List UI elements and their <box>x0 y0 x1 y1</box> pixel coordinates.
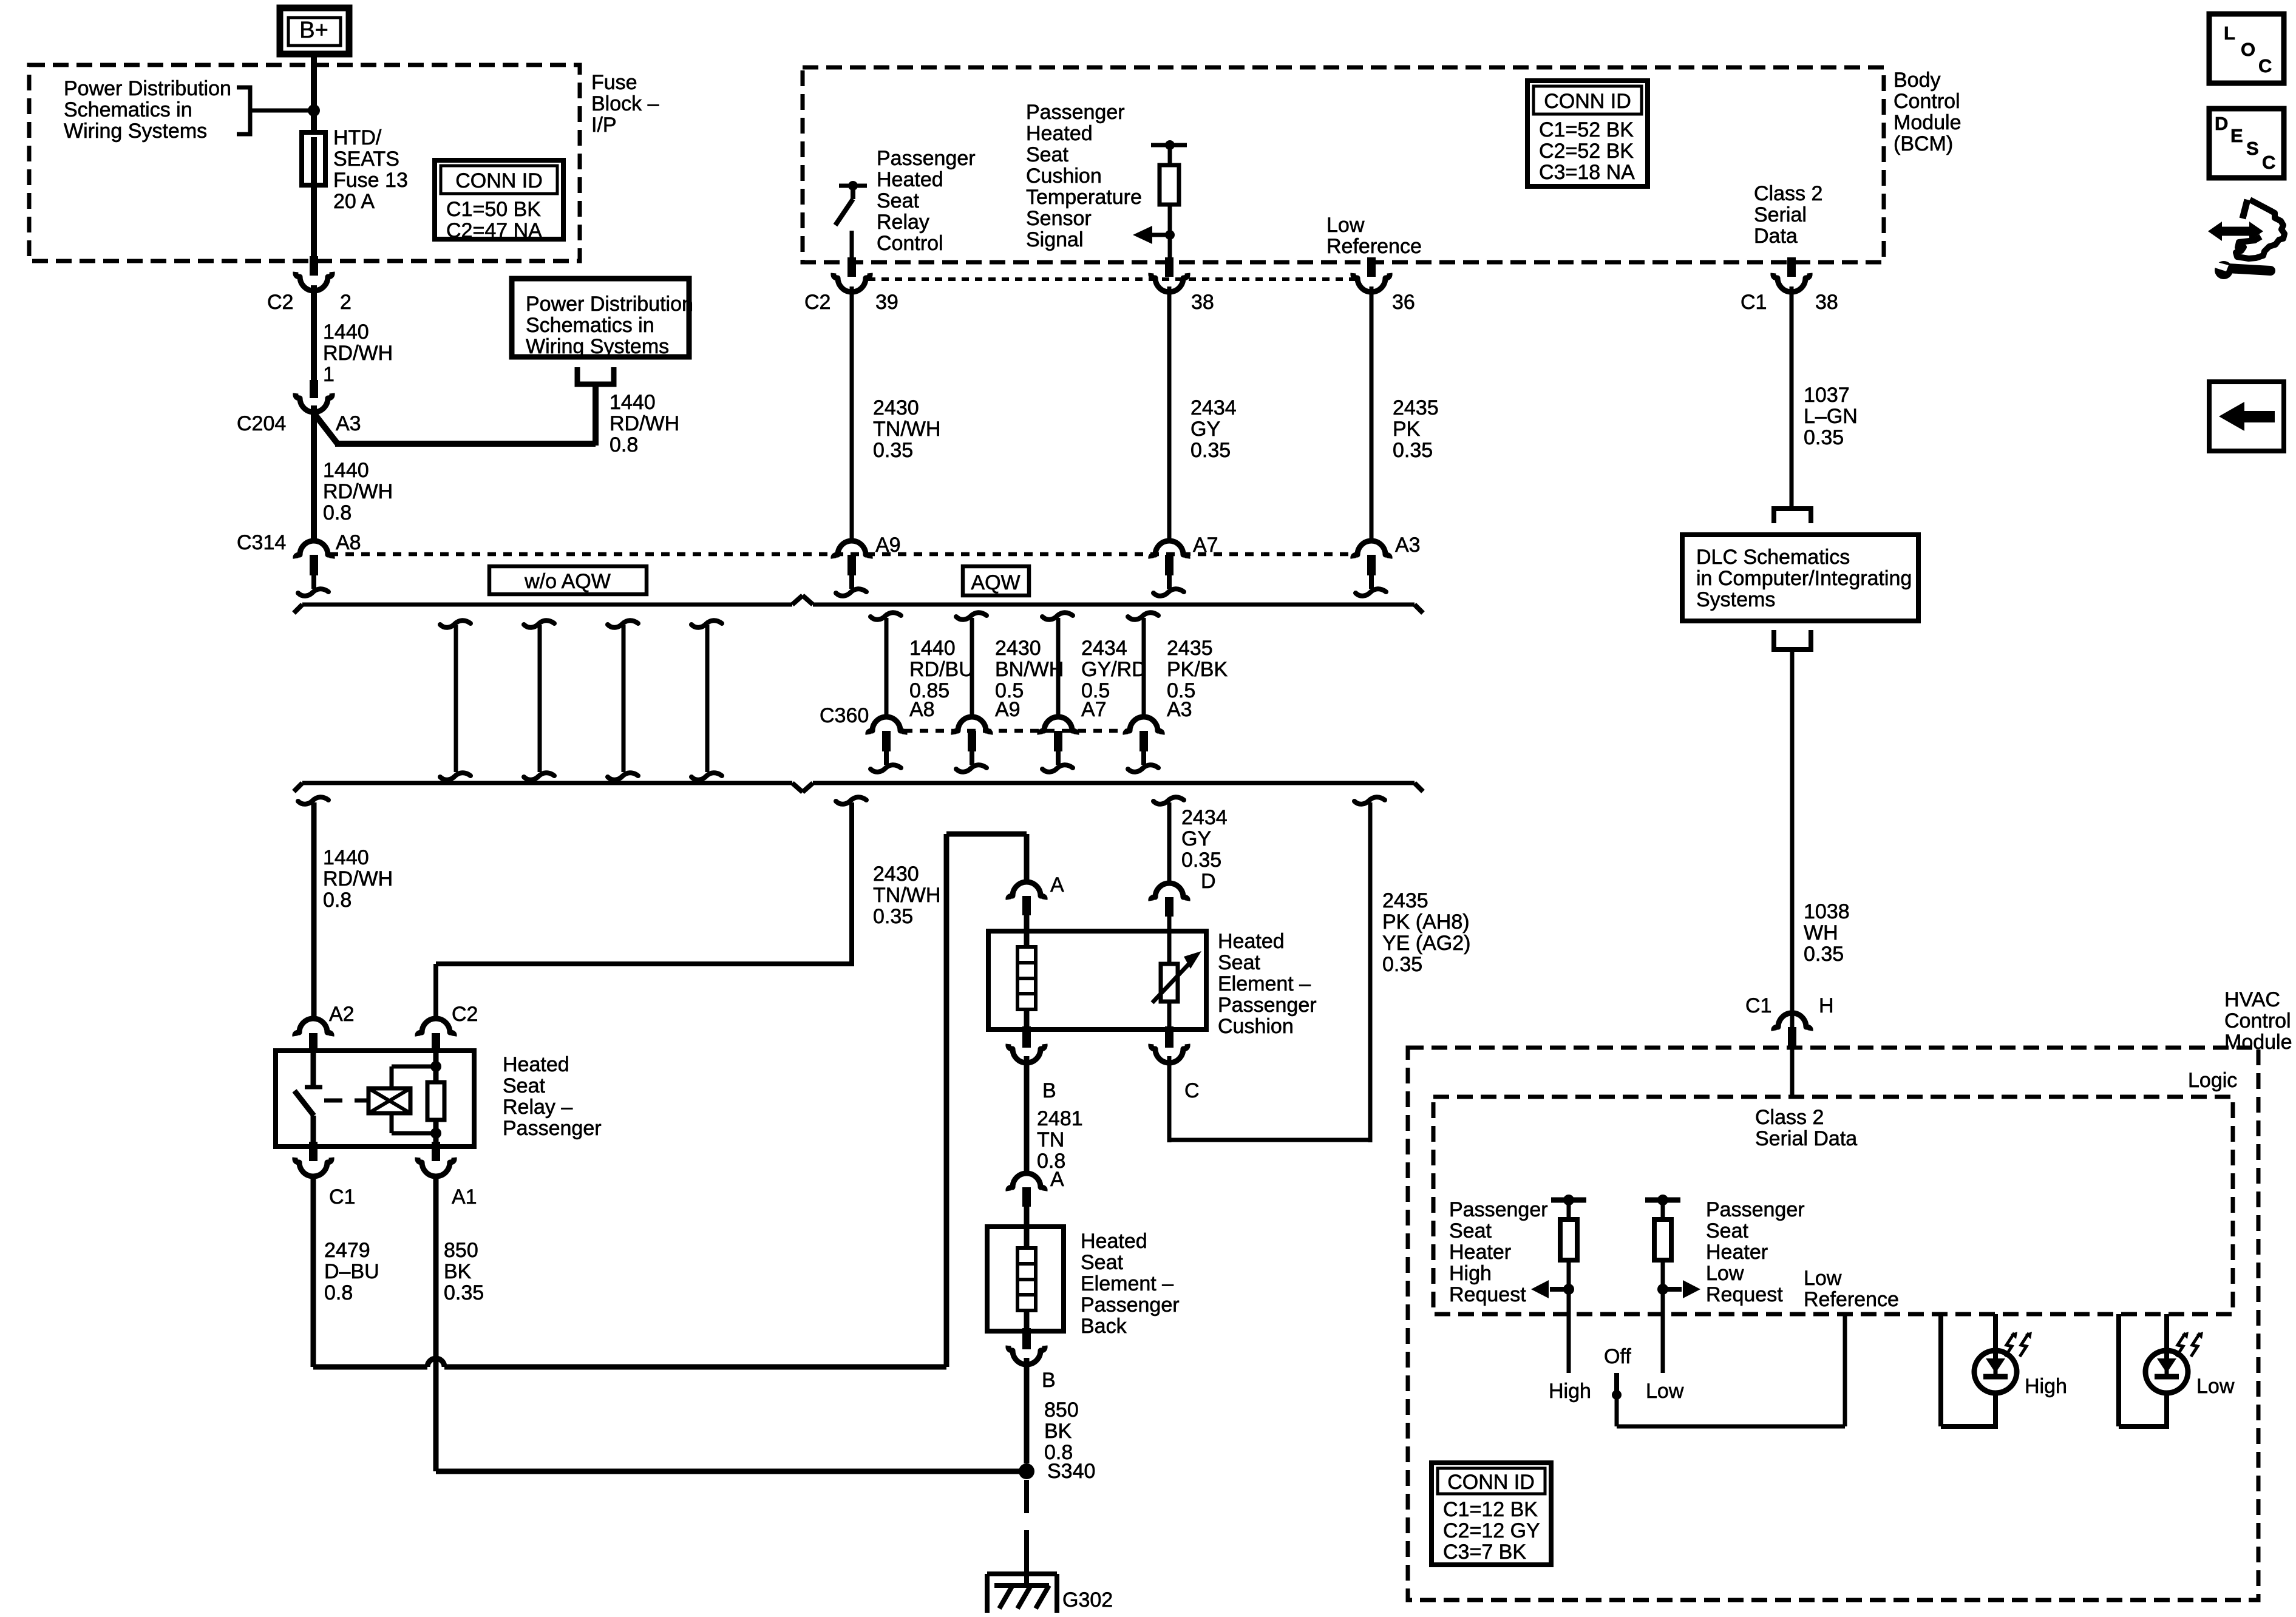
svg-text:Seat: Seat <box>877 189 919 212</box>
svg-text:w/o AQW: w/o AQW <box>524 570 611 593</box>
svg-text:Low: Low <box>1804 1267 1842 1290</box>
svg-text:Passenger: Passenger <box>1706 1198 1805 1221</box>
svg-text:C1=12 BK: C1=12 BK <box>1443 1498 1538 1521</box>
svg-text:1: 1 <box>323 363 335 386</box>
svg-text:Reference: Reference <box>1804 1288 1899 1311</box>
svg-text:0.35: 0.35 <box>1190 439 1231 462</box>
svg-text:2481: 2481 <box>1037 1107 1083 1130</box>
svg-text:Element –: Element – <box>1081 1272 1173 1295</box>
svg-text:High: High <box>1449 1262 1492 1285</box>
svg-text:38: 38 <box>1815 291 1838 314</box>
svg-text:I/P: I/P <box>591 114 617 137</box>
svg-text:2434: 2434 <box>1081 637 1127 660</box>
svg-text:Heater: Heater <box>1449 1241 1511 1264</box>
svg-text:Relay –: Relay – <box>503 1096 572 1119</box>
svg-text:A3: A3 <box>1395 534 1421 557</box>
svg-text:CONN ID: CONN ID <box>455 169 543 192</box>
svg-text:BN/WH: BN/WH <box>995 658 1064 681</box>
svg-text:0.35: 0.35 <box>1804 426 1844 449</box>
svg-text:Control: Control <box>2224 1009 2291 1032</box>
svg-text:Wiring Systems: Wiring Systems <box>526 335 669 358</box>
svg-text:2430: 2430 <box>873 863 919 886</box>
svg-text:1440: 1440 <box>323 846 369 869</box>
svg-text:Module: Module <box>2224 1031 2292 1054</box>
svg-text:Low: Low <box>2196 1375 2235 1398</box>
svg-text:Low: Low <box>1326 214 1365 237</box>
svg-text:C2: C2 <box>267 291 293 314</box>
svg-text:RD/WH: RD/WH <box>323 867 393 890</box>
svg-text:Off: Off <box>1604 1345 1631 1368</box>
svg-text:Seat: Seat <box>1026 143 1068 166</box>
svg-text:YE (AG2): YE (AG2) <box>1382 932 1470 955</box>
svg-text:0.8: 0.8 <box>324 1281 353 1304</box>
svg-text:Seat: Seat <box>1706 1219 1748 1242</box>
svg-text:B: B <box>1042 1079 1056 1102</box>
svg-text:BK: BK <box>1044 1420 1072 1443</box>
svg-text:GY: GY <box>1181 827 1211 850</box>
svg-text:0.8: 0.8 <box>610 433 638 456</box>
svg-text:C2=12 GY: C2=12 GY <box>1443 1519 1540 1542</box>
svg-text:C: C <box>2262 152 2275 173</box>
svg-text:Cushion: Cushion <box>1026 164 1102 188</box>
svg-text:Heated: Heated <box>877 168 943 191</box>
svg-text:CONN ID: CONN ID <box>1447 1471 1535 1494</box>
svg-text:C360: C360 <box>820 704 869 727</box>
svg-text:1037: 1037 <box>1804 384 1850 407</box>
svg-text:Relay: Relay <box>877 211 929 234</box>
svg-text:G302: G302 <box>1062 1588 1113 1612</box>
svg-text:Logic: Logic <box>2188 1069 2237 1092</box>
svg-text:SEATS: SEATS <box>333 147 399 171</box>
svg-text:Signal: Signal <box>1026 228 1084 251</box>
svg-text:C1: C1 <box>329 1185 355 1209</box>
svg-text:Seat: Seat <box>1218 951 1260 974</box>
svg-text:Seat: Seat <box>1081 1251 1123 1274</box>
svg-text:Back: Back <box>1081 1315 1127 1338</box>
svg-text:2435: 2435 <box>1382 889 1428 912</box>
svg-text:Power Distribution: Power Distribution <box>64 77 231 100</box>
svg-text:Passenger: Passenger <box>503 1117 602 1140</box>
svg-text:A3: A3 <box>336 412 361 435</box>
svg-text:High: High <box>1549 1380 1591 1403</box>
svg-text:2434: 2434 <box>1181 806 1228 829</box>
svg-text:850: 850 <box>444 1239 478 1262</box>
svg-text:1440: 1440 <box>323 459 369 482</box>
svg-text:TN/WH: TN/WH <box>873 418 940 441</box>
svg-text:GY: GY <box>1190 418 1220 441</box>
svg-text:(BCM): (BCM) <box>1894 132 1953 155</box>
svg-text:Heated: Heated <box>1026 122 1093 145</box>
svg-text:1440: 1440 <box>323 320 369 344</box>
svg-text:Passenger: Passenger <box>1218 994 1317 1017</box>
svg-text:C: C <box>1184 1079 1200 1102</box>
svg-text:C2: C2 <box>804 291 830 314</box>
svg-text:Fuse 13: Fuse 13 <box>333 169 408 192</box>
svg-text:Heated: Heated <box>503 1053 569 1076</box>
svg-text:Schematics in: Schematics in <box>64 98 192 121</box>
svg-text:Passenger: Passenger <box>1026 101 1125 124</box>
svg-text:Passenger: Passenger <box>1449 1198 1548 1221</box>
svg-text:0.35: 0.35 <box>444 1281 484 1304</box>
svg-text:Body: Body <box>1894 69 1941 92</box>
svg-text:2: 2 <box>340 291 352 314</box>
svg-text:C1: C1 <box>1745 994 1771 1017</box>
svg-text:L: L <box>2224 22 2235 44</box>
svg-text:PK/BK: PK/BK <box>1167 658 1228 681</box>
svg-text:Seat: Seat <box>503 1074 545 1097</box>
svg-text:Control: Control <box>877 232 943 255</box>
svg-text:WH: WH <box>1804 921 1838 944</box>
svg-text:TN: TN <box>1037 1128 1064 1151</box>
svg-text:A2: A2 <box>329 1003 355 1026</box>
svg-text:Data: Data <box>1754 225 1798 248</box>
svg-text:S: S <box>2246 138 2259 159</box>
svg-text:Class 2: Class 2 <box>1755 1106 1824 1129</box>
svg-text:0.35: 0.35 <box>873 439 913 462</box>
svg-text:C314: C314 <box>237 531 286 554</box>
svg-text:A: A <box>1050 873 1064 897</box>
svg-text:Heater: Heater <box>1706 1241 1768 1264</box>
svg-text:D: D <box>1201 870 1216 893</box>
svg-text:TN/WH: TN/WH <box>873 884 940 907</box>
svg-text:2479: 2479 <box>324 1239 370 1262</box>
svg-text:Module: Module <box>1894 111 1961 134</box>
svg-text:High: High <box>2025 1375 2067 1398</box>
svg-text:Wiring Systems: Wiring Systems <box>64 120 207 143</box>
svg-text:Passenger: Passenger <box>877 147 976 170</box>
svg-text:Passenger: Passenger <box>1081 1293 1180 1317</box>
svg-text:C204: C204 <box>237 412 286 435</box>
svg-text:C2: C2 <box>452 1003 478 1026</box>
svg-text:39: 39 <box>875 291 898 314</box>
svg-text:Serial: Serial <box>1754 203 1807 226</box>
svg-text:Element –: Element – <box>1218 972 1311 995</box>
svg-text:C: C <box>2258 55 2272 76</box>
svg-text:C1=52 BK: C1=52 BK <box>1539 118 1634 141</box>
svg-text:0.8: 0.8 <box>323 889 352 912</box>
svg-text:D: D <box>2215 113 2228 134</box>
svg-text:0.35: 0.35 <box>1804 943 1844 966</box>
svg-text:Request: Request <box>1449 1283 1526 1306</box>
svg-text:S340: S340 <box>1047 1460 1095 1483</box>
svg-text:36: 36 <box>1392 291 1415 314</box>
svg-text:RD/WH: RD/WH <box>323 342 393 365</box>
svg-text:A7: A7 <box>1193 534 1218 557</box>
svg-text:A8: A8 <box>909 698 935 721</box>
svg-text:C1: C1 <box>1741 291 1767 314</box>
svg-text:CONN ID: CONN ID <box>1544 90 1631 113</box>
svg-text:Schematics in: Schematics in <box>526 314 654 337</box>
svg-text:E: E <box>2230 125 2243 146</box>
svg-text:C3=7 BK: C3=7 BK <box>1443 1541 1526 1564</box>
svg-text:Fuse: Fuse <box>591 71 637 94</box>
svg-text:A8: A8 <box>336 531 361 554</box>
svg-text:Heated: Heated <box>1218 930 1285 953</box>
svg-text:A9: A9 <box>875 534 901 557</box>
svg-text:2435: 2435 <box>1167 637 1213 660</box>
svg-text:Control: Control <box>1894 90 1960 113</box>
svg-text:A: A <box>1050 1168 1064 1191</box>
svg-text:Systems: Systems <box>1696 588 1775 611</box>
svg-text:Sensor: Sensor <box>1026 207 1092 230</box>
svg-text:D–BU: D–BU <box>324 1260 379 1283</box>
svg-text:BK: BK <box>444 1260 472 1283</box>
svg-text:0.35: 0.35 <box>873 905 913 928</box>
svg-text:2430: 2430 <box>873 396 919 419</box>
svg-text:1440: 1440 <box>909 637 956 660</box>
svg-text:1440: 1440 <box>610 391 656 414</box>
svg-text:Block –: Block – <box>591 92 659 115</box>
svg-text:GY/RD: GY/RD <box>1081 658 1147 681</box>
svg-text:O: O <box>2241 39 2255 60</box>
svg-text:A7: A7 <box>1081 698 1107 721</box>
svg-text:DLC Schematics: DLC Schematics <box>1696 546 1850 569</box>
svg-text:PK: PK <box>1393 418 1421 441</box>
svg-text:2430: 2430 <box>995 637 1041 660</box>
svg-text:Class 2: Class 2 <box>1754 182 1822 205</box>
svg-text:Low: Low <box>1646 1380 1684 1403</box>
svg-text:RD/WH: RD/WH <box>610 412 679 435</box>
svg-text:Serial Data: Serial Data <box>1755 1127 1857 1150</box>
svg-text:Reference: Reference <box>1326 235 1422 258</box>
svg-text:PK (AH8): PK (AH8) <box>1382 910 1470 934</box>
svg-text:Seat: Seat <box>1449 1219 1492 1242</box>
svg-text:Request: Request <box>1706 1283 1783 1306</box>
svg-text:1038: 1038 <box>1804 900 1850 923</box>
svg-text:Power Distribution: Power Distribution <box>526 293 693 316</box>
svg-text:AQW: AQW <box>971 571 1020 594</box>
svg-text:2435: 2435 <box>1393 396 1439 419</box>
svg-text:Temperature: Temperature <box>1026 186 1142 209</box>
svg-text:0.35: 0.35 <box>1393 439 1433 462</box>
svg-text:A9: A9 <box>995 698 1021 721</box>
svg-text:B: B <box>1042 1369 1056 1392</box>
svg-text:RD/WH: RD/WH <box>323 480 393 503</box>
svg-text:Low: Low <box>1706 1262 1744 1285</box>
svg-text:0.8: 0.8 <box>323 501 352 524</box>
svg-text:A1: A1 <box>452 1185 477 1209</box>
svg-text:in Computer/Integrating: in Computer/Integrating <box>1696 567 1912 590</box>
svg-text:38: 38 <box>1191 291 1214 314</box>
svg-text:H: H <box>1819 994 1834 1017</box>
svg-text:C1=50 BK: C1=50 BK <box>446 198 541 221</box>
svg-text:Cushion: Cushion <box>1218 1015 1294 1038</box>
svg-text:0.35: 0.35 <box>1181 849 1221 872</box>
svg-text:20 A: 20 A <box>333 190 375 213</box>
svg-text:HVAC: HVAC <box>2224 988 2280 1011</box>
svg-text:RD/BU: RD/BU <box>909 658 974 681</box>
svg-text:C2=47 NA: C2=47 NA <box>446 219 542 242</box>
svg-text:C3=18 NA: C3=18 NA <box>1539 161 1635 184</box>
svg-text:C2=52 BK: C2=52 BK <box>1539 140 1634 163</box>
svg-text:2434: 2434 <box>1190 396 1237 419</box>
svg-text:850: 850 <box>1044 1398 1079 1422</box>
svg-text:L–GN: L–GN <box>1804 405 1858 428</box>
svg-text:A3: A3 <box>1167 698 1192 721</box>
svg-text:HTD/: HTD/ <box>333 126 382 149</box>
svg-text:0.35: 0.35 <box>1382 953 1422 976</box>
svg-text:B+: B+ <box>299 18 328 43</box>
svg-text:Heated: Heated <box>1081 1230 1147 1253</box>
